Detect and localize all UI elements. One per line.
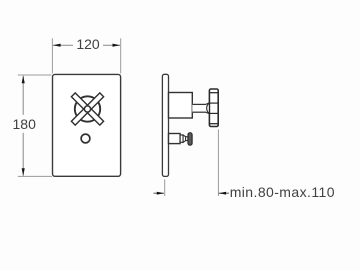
hub line top	[209, 102, 218, 104]
handle center cap	[84, 106, 90, 112]
handle cross bar SW-NE	[71, 93, 103, 125]
dim 180 line lower segment	[22, 133, 24, 176]
svg-text:120: 120	[76, 36, 100, 52]
diverter button (front)	[81, 134, 90, 143]
diverter neck	[186, 137, 188, 141]
stem top line	[192, 103, 206, 105]
handle bar cap line top	[209, 92, 218, 94]
min-max left arrow tail	[154, 192, 164, 194]
min-max dim extension line left (from plate)	[164, 179, 166, 196]
dim 180 arrow down	[22, 168, 25, 176]
handle cross bar NW-SE	[71, 93, 103, 125]
dim 120 arrow left	[53, 44, 61, 47]
hub arc	[207, 103, 210, 114]
front plate	[53, 74, 121, 176]
handle outer circle (front)	[75, 96, 100, 121]
stem (side) white underfill	[192, 103, 209, 115]
dim 120 extension line left	[51, 38, 53, 73]
svg-text:180: 180	[13, 116, 37, 132]
dim 180 arrow up	[22, 76, 25, 84]
dim 120 line right segment	[103, 44, 120, 46]
min-max left arrow head	[157, 192, 164, 195]
handle bar (side)	[209, 89, 218, 127]
diverter step	[180, 135, 183, 142]
collar flare top line	[206, 103, 209, 104]
handle bar cap line bottom	[209, 123, 218, 125]
collar flare bottom line	[206, 112, 209, 113]
dim 120 extension line right	[120, 38, 122, 73]
min-max right arrow head	[219, 192, 226, 195]
hub line bottom	[209, 112, 218, 114]
dim 120 arrow right	[113, 44, 121, 47]
diverter taper	[183, 135, 186, 142]
valve body (side)	[169, 93, 193, 119]
stem bottom line	[192, 111, 206, 113]
dim 180 line upper segment	[22, 76, 24, 115]
dim 180 extension line top	[18, 74, 52, 76]
min-max dim extension line right (from handle)	[217, 130, 219, 197]
min-max right arrow tail	[219, 192, 229, 194]
diverter base (side)	[169, 134, 181, 144]
dim 180 extension line bottom	[18, 175, 52, 177]
diverter knob	[188, 133, 192, 146]
dim 120 line left segment	[53, 44, 73, 46]
svg-text:min.80-max.110: min.80-max.110	[230, 184, 335, 200]
side wall plate	[162, 74, 168, 176]
